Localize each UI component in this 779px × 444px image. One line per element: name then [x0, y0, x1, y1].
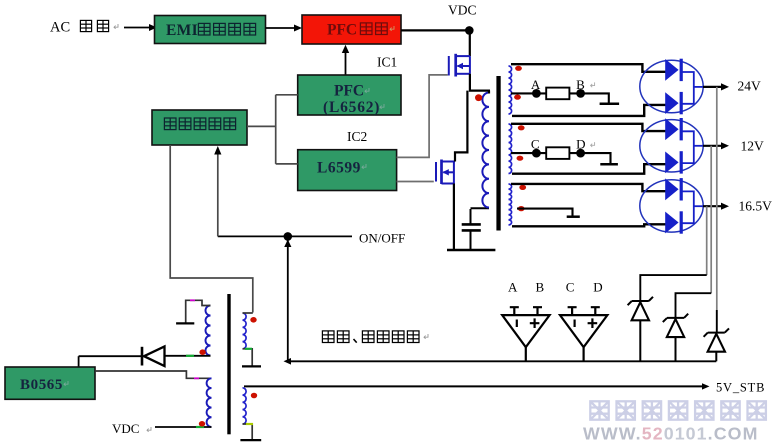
node T2 phase dot lower secondary — [251, 393, 257, 399]
wire S1 bottom lead to rectifier — [512, 105, 666, 116]
wire B0565 to T2 lower primary — [95, 371, 212, 378]
svg-text:VDC: VDC — [112, 421, 139, 436]
wire standby-control to IC bus — [247, 95, 298, 164]
rectifier D3 dual-diode pack — [640, 118, 703, 174]
ground bar below Q2 — [447, 249, 495, 252]
transformer T1 secondary winding S2 — [509, 124, 512, 174]
svg-text:(L6562): (L6562) — [323, 99, 380, 116]
wire VDC down to Q1 drain — [469, 30, 471, 56]
ground S1 centre tap — [600, 102, 620, 105]
ground T2 lower secondary — [240, 439, 261, 441]
wire ON/OFF line — [218, 235, 352, 237]
wire L6599 gate drive to Q2 — [397, 181, 434, 183]
transformer T1 secondary winding S3 — [509, 184, 512, 225]
resistor R2 current shunt — [546, 147, 569, 159]
zener ZD2 — [663, 314, 688, 362]
IC U2 resonant controller L6599 — [298, 150, 397, 191]
IC U5 standby controller B0565 — [5, 367, 95, 399]
svg-text:EMI: EMI — [166, 22, 198, 39]
wire 12V feedback tap — [710, 146, 712, 293]
zener ZD1 — [628, 297, 653, 362]
wire T2 upper primary bottom lead — [165, 355, 211, 357]
wire protection bus — [284, 358, 717, 365]
wire 24V feedback tap — [716, 87, 718, 310]
svg-text:C: C — [531, 137, 540, 152]
wire S2 centre tap — [511, 153, 611, 164]
node T2 phase dot lower primary — [199, 421, 205, 427]
wire 24V output arrow — [703, 83, 729, 90]
op-amp U3 comparator A/B — [502, 307, 549, 361]
wire standby-control output to standby transformer — [170, 145, 253, 313]
transformer T1 secondary winding S1 — [509, 66, 512, 114]
wire Q2 drain to half-bridge node — [455, 91, 467, 162]
svg-text:B: B — [536, 280, 545, 295]
wire 5V_STB output — [244, 383, 710, 389]
ground S3 centre tap — [567, 215, 580, 218]
node S3 phase dots — [519, 185, 526, 190]
block EMI rectifier-filter (EMI整流滤波) — [155, 16, 266, 44]
wire T2 lower primary bottom lead to VDC — [155, 426, 212, 428]
transformer T2 upper primary winding — [206, 306, 211, 356]
svg-text:16.5V: 16.5V — [739, 199, 773, 214]
wire S3 bottom lead to rectifier — [512, 224, 666, 226]
wire S3 centre tap — [517, 209, 573, 217]
wire protection signal vertical — [287, 240, 289, 361]
wire L6599 gate drive to Q1 — [397, 75, 448, 157]
wire S3 top lead to rectifier — [511, 184, 666, 191]
node ON/OFF junction dot with up arrow — [284, 232, 293, 241]
wire Q2 source to ground — [453, 184, 455, 251]
transformer T1 primary winding — [482, 93, 489, 208]
wire half-bridge node into primary — [488, 91, 490, 94]
block standby control (开待机控制) — [152, 110, 247, 145]
wire T2 upper secondary bottom lead to ground — [243, 349, 253, 366]
node T2 phase dot upper primary — [199, 349, 205, 355]
svg-text:PFC: PFC — [327, 22, 357, 39]
diode D1 rectifier to B0565 — [79, 346, 165, 367]
wire AC input arrow — [124, 24, 157, 31]
wire L6562 to PFC block arrow — [342, 45, 349, 75]
wire T2 upper secondary top lead — [243, 312, 253, 314]
node C — [532, 149, 541, 158]
wire Q1 source to half-bridge node — [470, 74, 490, 91]
ground S2 centre tap — [600, 163, 618, 166]
svg-text:C: C — [566, 280, 575, 295]
wire 16.5V feedback tap — [706, 206, 708, 275]
svg-text:B: B — [576, 77, 585, 92]
node T2 phase dot upper secondary — [250, 317, 256, 323]
transformer T2 core — [227, 294, 230, 434]
svg-text:IC1: IC1 — [377, 55, 397, 70]
svg-text:D: D — [576, 137, 585, 152]
transformer T2 upper secondary winding — [243, 313, 247, 349]
node A — [532, 89, 541, 98]
svg-text:WWW.520101.COM: WWW.520101.COM — [583, 424, 759, 444]
transistor Q1 upper MOSFET — [449, 54, 470, 77]
wire S2 top lead to rectifier — [511, 124, 666, 131]
label VDC (standby supply) — [112, 421, 151, 436]
transformer T2 lower secondary winding — [243, 388, 247, 424]
svg-text:A: A — [508, 280, 518, 295]
wire T2 upper primary top lead to ground — [186, 300, 211, 323]
svg-text:B0565: B0565 — [20, 377, 63, 393]
label overvoltage/overcurrent protection (过压、过流保护) — [322, 331, 428, 343]
svg-text:12V: 12V — [741, 139, 765, 154]
rectifier D4 dual-diode pack — [640, 178, 703, 234]
transistor Q2 lower MOSFET — [436, 160, 455, 185]
svg-text:24V: 24V — [738, 79, 762, 94]
capacitor C1 resonant — [462, 209, 481, 250]
svg-text:5V_STB: 5V_STB — [716, 381, 765, 395]
svg-text:PFC: PFC — [334, 83, 364, 100]
svg-text:VDC: VDC — [448, 3, 477, 18]
svg-text:AC: AC — [50, 20, 70, 36]
svg-text:D: D — [593, 280, 602, 295]
wire T2 lower secondary bottom lead to ground — [243, 424, 253, 440]
watermark 家电维修资料网 — [590, 401, 766, 419]
node AC input label (AC 输入) — [50, 20, 118, 36]
svg-text:A: A — [531, 77, 541, 92]
rectifier D2 dual-diode pack — [640, 59, 703, 115]
node B — [576, 89, 585, 98]
op-amp U4 comparator C/D — [560, 307, 607, 361]
svg-text:L6599: L6599 — [317, 160, 361, 177]
ground T2 upper secondary — [242, 365, 261, 367]
svg-text:ON/OFF: ON/OFF — [359, 231, 405, 246]
wire 12V output arrow — [703, 142, 729, 149]
node VDC junction dot — [465, 26, 474, 35]
wire EMI to PFC arrow — [266, 25, 303, 32]
wire primary bottom to C1 — [471, 207, 490, 209]
ground T2 upper primary — [176, 322, 194, 324]
resistor R1 current shunt — [546, 88, 569, 100]
node primary phase dot — [475, 94, 482, 101]
zener ZD3 — [704, 328, 729, 361]
wire S1 top lead to rectifier — [511, 64, 666, 72]
wire feedback into standby-control (arrow up) — [214, 146, 221, 236]
node D — [576, 149, 585, 158]
wire 16.5V output arrow — [703, 203, 729, 210]
block PFC circuit (PFC 电路, red) — [302, 15, 401, 44]
svg-text:IC2: IC2 — [347, 129, 367, 144]
transformer T1 core — [496, 76, 500, 231]
node S2 phase dots — [518, 125, 525, 130]
wire S1 centre tap — [511, 93, 609, 103]
node S1 phase dots — [515, 66, 522, 71]
wire S2 bottom lead to rectifier — [512, 164, 666, 174]
transformer T2 lower primary winding — [207, 378, 212, 427]
wire PFC output to VDC node — [401, 29, 467, 31]
IC U1 PFC controller (L6562) — [298, 75, 401, 116]
